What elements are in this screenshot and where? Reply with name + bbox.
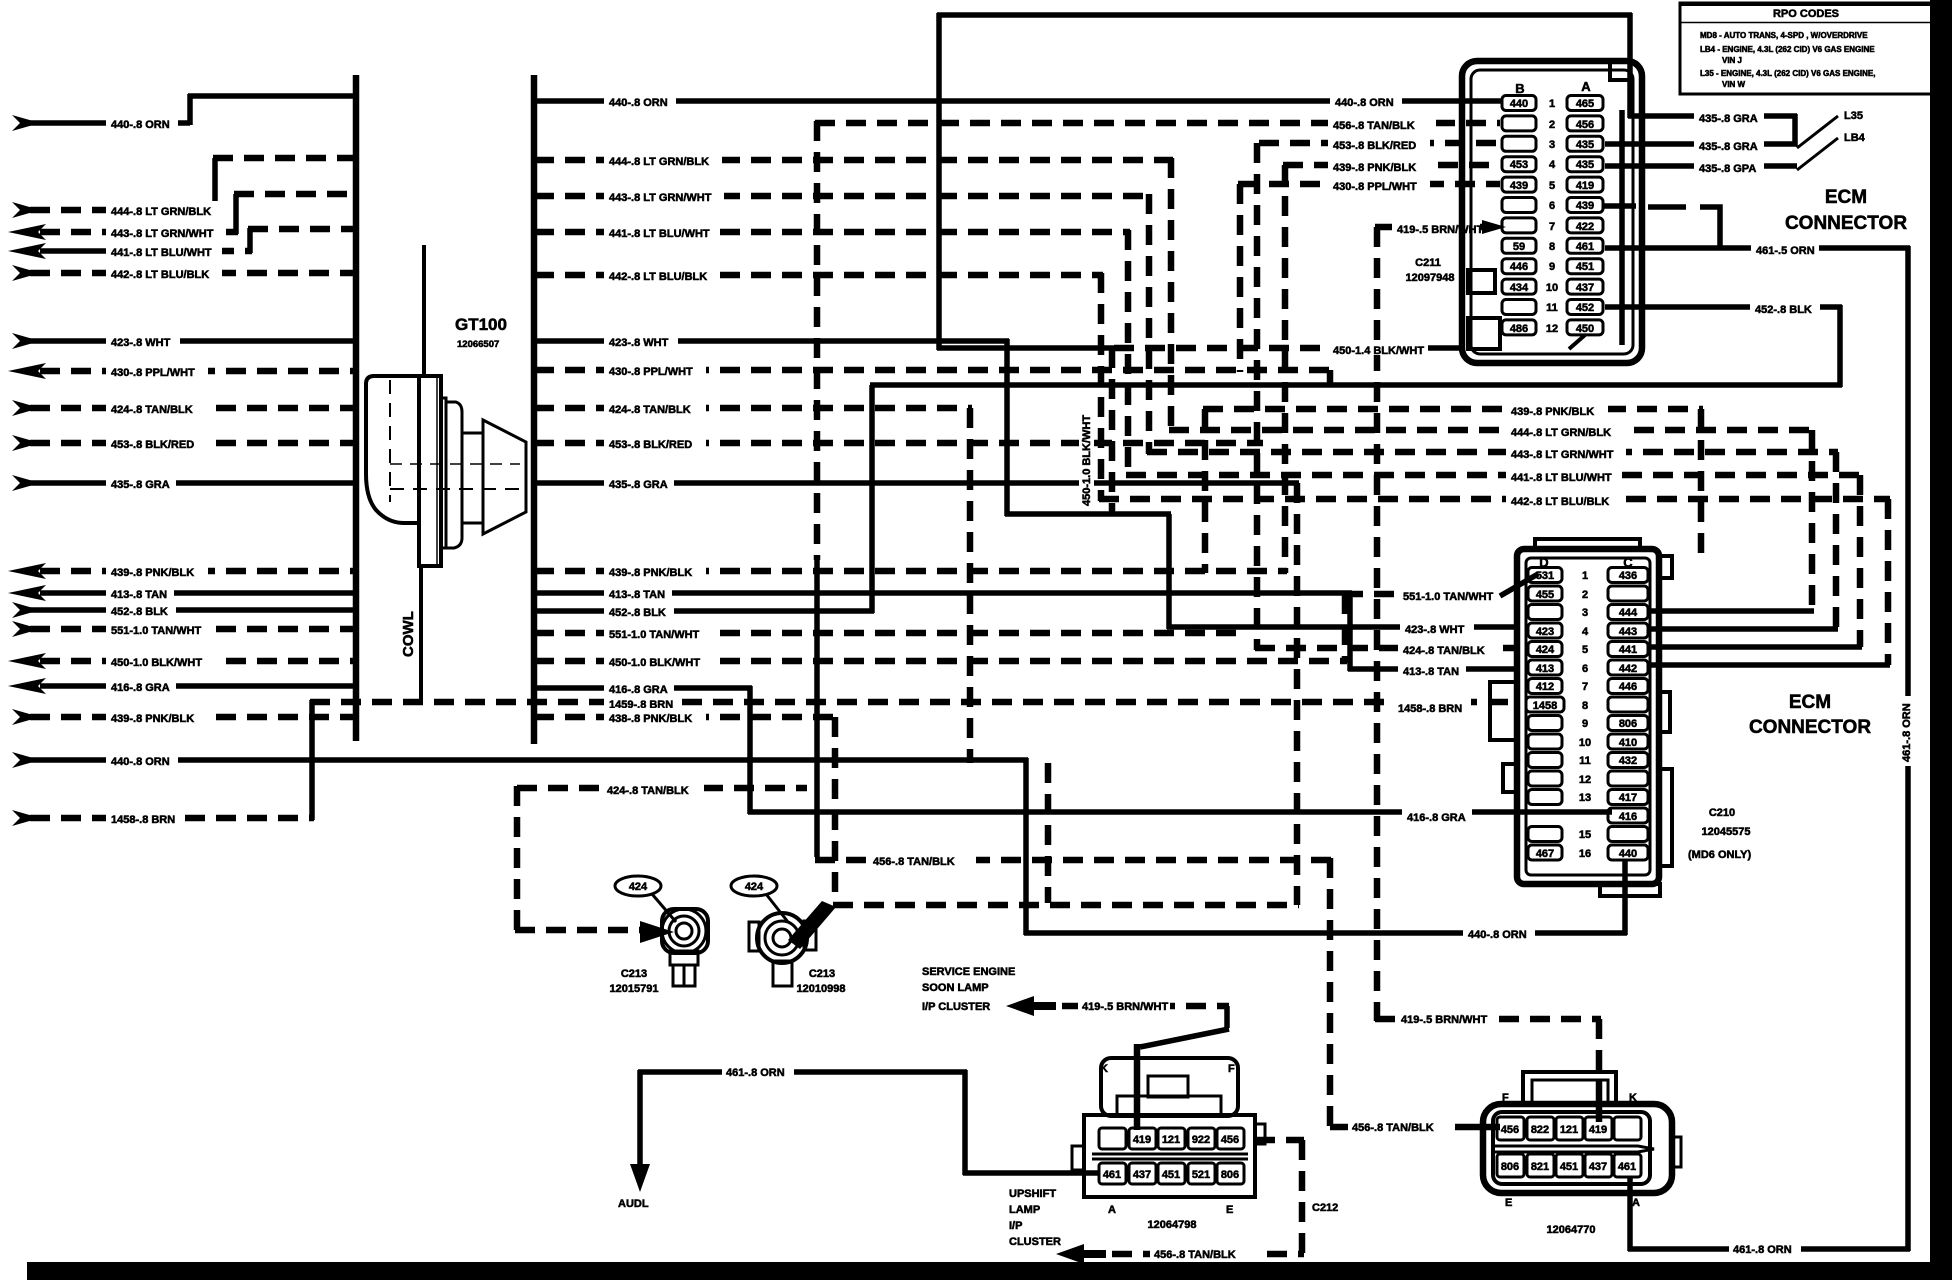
svg-text:437: 437: [1589, 1161, 1607, 1173]
svg-text:1: 1: [1582, 570, 1588, 582]
svg-text:424: 424: [629, 881, 648, 893]
C211 A6 stub and elbow: [1603, 203, 1636, 209]
wire 435-.8 GPA stub row 3: [1605, 158, 1797, 175]
svg-text:9: 9: [1549, 261, 1555, 273]
svg-text:435: 435: [1576, 159, 1594, 171]
wire 450-1.0 BLK/WHT left: [8, 652, 356, 669]
svg-text:436: 436: [1619, 570, 1637, 582]
svg-text:424-.8 TAN/BLK: 424-.8 TAN/BLK: [111, 404, 193, 416]
svg-text:E: E: [1226, 1204, 1233, 1216]
connector GT100 grommet body: [366, 376, 526, 566]
svg-text:440: 440: [1619, 848, 1637, 860]
svg-text:VIN W: VIN W: [1722, 80, 1746, 89]
svg-text:10: 10: [1546, 282, 1558, 294]
UPSHIFT LAMP text: [1009, 1188, 1061, 1248]
svg-text:461-.8 ORN: 461-.8 ORN: [726, 1067, 785, 1079]
svg-text:439: 439: [1510, 180, 1528, 192]
wire 413-.8 TAN left: [8, 584, 356, 601]
svg-text:416: 416: [1619, 811, 1637, 823]
wire 453-.8 BLK/RED right of cowl: [534, 434, 1263, 451]
svg-text:RPO CODES: RPO CODES: [1773, 8, 1839, 20]
wire 435-.8 GRA stub row 1: [1628, 13, 1797, 125]
svg-text:A: A: [1632, 1197, 1640, 1209]
wire 450 top loop vertical: [936, 13, 942, 350]
svg-text:456-.8 TAN/BLK: 456-.8 TAN/BLK: [1352, 1122, 1434, 1134]
svg-text:CONNECTOR: CONNECTOR: [1749, 717, 1871, 738]
wire 456-.8 TAN/BLK to upshift lamp: [1112, 1246, 1304, 1261]
svg-text:12064770: 12064770: [1547, 1224, 1596, 1236]
connector GT100 stem upper: [422, 245, 426, 378]
svg-text:439-.8 PNK/BLK: 439-.8 PNK/BLK: [609, 567, 692, 579]
svg-text:12045575: 12045575: [1702, 826, 1751, 838]
wire 430-.8 PPL/WHT right of cowl: [534, 361, 1332, 387]
scan artifact right bar: [1930, 0, 1952, 1280]
svg-text:452: 452: [1576, 302, 1594, 314]
svg-text:L35: L35: [1844, 110, 1863, 122]
svg-text:1458-.8 BRN: 1458-.8 BRN: [1398, 703, 1462, 715]
wire 450-1.0 BLK/WHT right of cowl: [534, 652, 1347, 669]
svg-text:C211: C211: [1415, 257, 1441, 269]
svg-text:419-.5 BRN/WHT: 419-.5 BRN/WHT: [1401, 1014, 1487, 1026]
splice tag 424 left: [615, 876, 676, 922]
svg-text:13: 13: [1579, 792, 1591, 804]
svg-text:456: 456: [1221, 1134, 1239, 1146]
svg-text:452-.8 BLK: 452-.8 BLK: [609, 607, 666, 619]
connector C211 outline: [1462, 61, 1642, 363]
svg-text:419: 419: [1133, 1134, 1151, 1146]
svg-text:6: 6: [1582, 663, 1588, 675]
svg-text:461-.5 ORN: 461-.5 ORN: [1756, 245, 1815, 257]
svg-text:461: 461: [1618, 1161, 1636, 1173]
wire 443-.8 LT GRN/WHT mid row to C210 C4: [1147, 444, 1838, 629]
scan artifact bottom bar: [27, 1262, 1952, 1280]
svg-text:456: 456: [1501, 1124, 1519, 1136]
svg-text:439-.8 PNK/BLK: 439-.8 PNK/BLK: [1511, 406, 1594, 418]
svg-text:434: 434: [1510, 282, 1529, 294]
svg-text:2: 2: [1582, 589, 1588, 601]
svg-text:450: 450: [1576, 323, 1594, 335]
svg-text:806: 806: [1619, 718, 1637, 730]
svg-text:456: 456: [1576, 119, 1594, 131]
svg-text:I/P CLUSTER: I/P CLUSTER: [922, 1001, 990, 1013]
svg-text:456-.8 TAN/BLK: 456-.8 TAN/BLK: [873, 856, 955, 868]
svg-text:450-1.0 BLK/WHT: 450-1.0 BLK/WHT: [1081, 415, 1093, 506]
svg-text:806: 806: [1221, 1169, 1239, 1181]
wire 439-.8 PNK/BLK lower left: [12, 708, 356, 725]
svg-text:465: 465: [1576, 98, 1594, 110]
svg-text:2: 2: [1549, 119, 1555, 131]
svg-text:551-1.0 TAN/WHT: 551-1.0 TAN/WHT: [1403, 591, 1494, 603]
svg-text:CONNECTOR: CONNECTOR: [1785, 213, 1907, 234]
svg-text:16: 16: [1579, 848, 1591, 860]
sensor C213 12015791: [610, 909, 708, 995]
svg-text:456-.8 TAN/BLK: 456-.8 TAN/BLK: [1154, 1249, 1236, 1261]
cowl left bulkhead line: [353, 75, 360, 741]
wire 435-.8 GRA left: [12, 474, 356, 491]
svg-text:423-.8 WHT: 423-.8 WHT: [609, 337, 669, 349]
connector 12064770: [1483, 1072, 1681, 1236]
wire 441-.8 LT BLU/WHT right of cowl: [534, 223, 1130, 240]
svg-text:GT100: GT100: [455, 315, 507, 334]
svg-text:F: F: [1228, 1063, 1235, 1075]
wire 441-.8 LT BLU/WHT left: [8, 228, 356, 259]
wire 430-.8 PPL/WHT left: [8, 362, 356, 379]
C211 inner right bus: [1619, 110, 1625, 345]
svg-text:439-.8 PNK/BLK: 439-.8 PNK/BLK: [111, 713, 194, 725]
svg-text:11: 11: [1579, 755, 1591, 767]
svg-text:422: 422: [1576, 221, 1594, 233]
svg-text:456-.8 TAN/BLK: 456-.8 TAN/BLK: [1333, 120, 1415, 132]
wire 444-.8 LT GRN/BLK mid row to C210 C3: [1169, 422, 1814, 611]
wire 444 drop mid: [1168, 158, 1175, 432]
wire 450-1.4 BLK/WHT into C211: [937, 340, 1462, 357]
wire top horizontal run: [937, 12, 1632, 18]
svg-text:521: 521: [1192, 1169, 1210, 1181]
svg-text:461: 461: [1576, 241, 1594, 253]
svg-text:442-.8 LT BLU/BLK: 442-.8 LT BLU/BLK: [609, 271, 707, 283]
connector C210 outline: [1490, 539, 1672, 896]
svg-text:424-.8 TAN/BLK: 424-.8 TAN/BLK: [607, 785, 689, 797]
svg-text:419: 419: [1576, 180, 1594, 192]
wire 435-.8 GRA right of cowl: [534, 474, 1299, 491]
svg-text:413-.8 TAN: 413-.8 TAN: [111, 589, 167, 601]
arrow to upshift lamp: [1056, 1244, 1106, 1264]
svg-text:MD8 - AUTO TRANS, 4-SPD , W/OV: MD8 - AUTO TRANS, 4-SPD , W/OVERDRIVE: [1700, 31, 1868, 40]
wire 443 drop mid: [1146, 194, 1153, 454]
SERVICE ENGINE SOON LAMP text: [922, 966, 1015, 1013]
svg-text:442: 442: [1619, 663, 1637, 675]
svg-text:L35 - ENGINE, 4.3L (262 CID) V: L35 - ENGINE, 4.3L (262 CID) V6 GAS ENGI…: [1700, 69, 1875, 78]
wire 456-.8 TAN/BLK into 12064770: [1330, 1119, 1500, 1134]
svg-text:410: 410: [1619, 737, 1637, 749]
wire 452-.8 BLK left: [12, 601, 356, 618]
svg-text:453: 453: [1510, 159, 1528, 171]
svg-text:439: 439: [1576, 200, 1594, 212]
connector C210 pin rows: [1526, 568, 1648, 861]
svg-text:440-.8 ORN: 440-.8 ORN: [1468, 929, 1527, 941]
wire 419-.5 BRN/WHT to C212 right half: [1375, 1011, 1601, 1122]
wire 442 drop mid: [1098, 273, 1105, 501]
svg-text:461-.8 ORN: 461-.8 ORN: [1733, 1244, 1792, 1256]
svg-text:LB4 - ENGINE, 4.3L (262 CID) V: LB4 - ENGINE, 4.3L (262 CID) V6 GAS ENGI…: [1700, 45, 1875, 54]
svg-text:LAMP: LAMP: [1009, 1204, 1040, 1216]
wire 416-.8 GRA right of cowl: [534, 679, 1612, 824]
svg-text:486: 486: [1510, 323, 1528, 335]
wire 456-.8 TAN/BLK vertical drop: [815, 121, 1332, 1129]
svg-text:430-.8 PPL/WHT: 430-.8 PPL/WHT: [1333, 181, 1417, 193]
sensor C213 12010998: [749, 913, 845, 995]
svg-text:SOON LAMP: SOON LAMP: [922, 982, 989, 994]
svg-text:C213: C213: [809, 968, 835, 980]
svg-text:551-1.0 TAN/WHT: 551-1.0 TAN/WHT: [111, 625, 202, 637]
svg-text:430-.8 PPL/WHT: 430-.8 PPL/WHT: [111, 367, 195, 379]
wire 413-.8 TAN right of cowl: [534, 584, 1352, 601]
wire 551-1.0 TAN/WHT into C210 D1: [1343, 574, 1538, 663]
svg-text:435-.8 GPA: 435-.8 GPA: [1699, 163, 1756, 175]
svg-text:453-.8 BLK/RED: 453-.8 BLK/RED: [111, 439, 194, 451]
svg-text:412: 412: [1536, 681, 1554, 693]
wire stub from right sensor to 438 run: [788, 901, 836, 949]
L35 callout: [1797, 110, 1863, 148]
svg-text:443-.8 LT GRN/WHT: 443-.8 LT GRN/WHT: [609, 192, 712, 204]
connector 12064798: [1072, 1058, 1265, 1231]
svg-text:437: 437: [1133, 1169, 1151, 1181]
svg-text:822: 822: [1531, 1124, 1549, 1136]
svg-text:441: 441: [1619, 644, 1637, 656]
svg-text:441-.8 LT BLU/WHT: 441-.8 LT BLU/WHT: [1511, 472, 1612, 484]
connector GT100 stem lower: [419, 564, 423, 702]
wire 423-.8 WHT route to C210: [1005, 339, 1517, 636]
svg-text:15: 15: [1579, 829, 1591, 841]
svg-text:446: 446: [1510, 261, 1528, 273]
svg-text:4: 4: [1582, 626, 1589, 638]
wire 424-.8 TAN/BLK sensor run: [515, 408, 970, 943]
svg-text:440-.8 ORN: 440-.8 ORN: [111, 119, 170, 131]
svg-text:3: 3: [1549, 139, 1555, 151]
svg-text:430-.8 PPL/WHT: 430-.8 PPL/WHT: [609, 366, 693, 378]
svg-text:10: 10: [1579, 737, 1591, 749]
wire 461-.8 ORN from 12064770 pin A: [1628, 1176, 1910, 1256]
svg-text:440: 440: [1510, 98, 1528, 110]
svg-text:8: 8: [1549, 241, 1555, 253]
wire 461 from C211 A8 to right edge: [1605, 240, 1913, 1251]
svg-text:806: 806: [1501, 1161, 1519, 1173]
wire 438-.8 PNK/BLK right of cowl: [534, 708, 1299, 905]
svg-text:443: 443: [1619, 626, 1637, 638]
svg-text:1: 1: [1549, 98, 1555, 110]
svg-text:6: 6: [1549, 200, 1555, 212]
cowl right bulkhead line: [531, 75, 538, 744]
svg-text:451: 451: [1560, 1161, 1578, 1173]
svg-text:SERVICE ENGINE: SERVICE ENGINE: [922, 966, 1015, 978]
wire 439-.8 PNK/BLK right of cowl: [534, 562, 1287, 579]
svg-text:452-.8 BLK: 452-.8 BLK: [1755, 304, 1812, 316]
wire 413-.8 TAN into C210 D6: [1348, 591, 1517, 678]
svg-text:443-.8 LT GRN/WHT: 443-.8 LT GRN/WHT: [1511, 449, 1614, 461]
svg-text:LB4: LB4: [1844, 132, 1866, 144]
wire 423-.8 WHT left: [12, 332, 356, 349]
svg-text:AUDL: AUDL: [618, 1198, 649, 1210]
svg-text:437: 437: [1576, 282, 1594, 294]
svg-text:7: 7: [1549, 221, 1555, 233]
svg-text:435-.8 GRA: 435-.8 GRA: [1699, 113, 1758, 125]
wire 452-.8 BLK right of cowl: [534, 602, 874, 619]
svg-text:C212: C212: [1312, 1202, 1338, 1214]
svg-text:5: 5: [1582, 644, 1588, 656]
wire 416-.8 GRA left: [8, 677, 356, 694]
svg-text:444-.8 LT GRN/BLK: 444-.8 LT GRN/BLK: [111, 206, 211, 218]
svg-text:A: A: [1108, 1204, 1116, 1216]
svg-text:439-.8 PNK/BLK: 439-.8 PNK/BLK: [111, 567, 194, 579]
wire 450-1.0 BLK/WHT vertical with rotated label: [1079, 348, 1112, 514]
svg-text:440-.8 ORN: 440-.8 ORN: [111, 756, 170, 768]
wire 435 vertical stub mid: [1294, 483, 1301, 905]
svg-text:423-.8 WHT: 423-.8 WHT: [1405, 624, 1465, 636]
svg-text:440-.8 ORN: 440-.8 ORN: [1335, 97, 1394, 109]
svg-text:432: 432: [1619, 755, 1637, 767]
svg-text:COWL: COWL: [400, 611, 417, 657]
svg-text:435-.8 GRA: 435-.8 GRA: [609, 479, 668, 491]
svg-text:450-1.0 BLK/WHT: 450-1.0 BLK/WHT: [111, 657, 202, 669]
svg-text:419: 419: [1589, 1124, 1607, 1136]
RPO CODES legend box: [1680, 3, 1933, 94]
wire 443-.8 LT GRN/WHT right of cowl: [534, 187, 1151, 204]
wire 456-.8 TAN/BLK from pin 456 down: [1255, 1140, 1304, 1256]
svg-text:3: 3: [1582, 607, 1588, 619]
wire 435-.8 GRA stub row 2: [1605, 114, 1797, 153]
svg-text:A: A: [1581, 79, 1591, 94]
wire 440-.8 ORN right of cowl: [534, 92, 1502, 109]
svg-text:ECM: ECM: [1825, 187, 1867, 208]
wire 452-.8 BLK route to C211 A11: [870, 299, 1842, 613]
wire 453-.8 BLK/RED left: [12, 434, 356, 451]
wire 424-.8 TAN/BLK right of cowl: [534, 399, 972, 416]
wire 439-.8 PNK/BLK mid row: [1203, 401, 1703, 573]
wire 440-.8 ORN left: [12, 94, 356, 131]
svg-text:12010998: 12010998: [797, 983, 846, 995]
svg-text:453-.8 BLK/RED: 453-.8 BLK/RED: [1333, 140, 1416, 152]
wire 453-.8 BLK/RED into C211: [1257, 135, 1500, 650]
wire 439-.8 PNK/BLK into C211: [1283, 157, 1500, 573]
svg-text:11: 11: [1546, 302, 1558, 314]
splice tag 424 right: [731, 876, 788, 922]
svg-text:531: 531: [1536, 570, 1554, 582]
svg-text:435: 435: [1576, 139, 1594, 151]
arrow to service engine lamp: [1006, 996, 1056, 1016]
svg-text:452-.8 BLK: 452-.8 BLK: [111, 606, 168, 618]
svg-text:B: B: [1515, 81, 1524, 96]
wire 424-.8 TAN/BLK left: [12, 399, 356, 416]
svg-text:441-.8 LT BLU/WHT: 441-.8 LT BLU/WHT: [609, 228, 710, 240]
svg-text:417: 417: [1619, 792, 1637, 804]
svg-text:439-.8 PNK/BLK: 439-.8 PNK/BLK: [1333, 162, 1416, 174]
wire 1459-.8 BRN through cowl: [310, 694, 1517, 715]
wire 442-.8 LT BLU/BLK right of cowl: [534, 266, 1103, 283]
svg-text:12066507: 12066507: [457, 339, 499, 350]
svg-text:E: E: [1505, 1197, 1512, 1209]
wire 551-1.0 TAN/WHT left: [12, 620, 356, 637]
svg-text:K: K: [1629, 1092, 1637, 1104]
svg-text:424-.8 TAN/BLK: 424-.8 TAN/BLK: [609, 404, 691, 416]
svg-text:461: 461: [1103, 1169, 1121, 1181]
svg-text:442-.8 LT BLU/BLK: 442-.8 LT BLU/BLK: [1511, 496, 1609, 508]
svg-text:461-.8 ORN: 461-.8 ORN: [1901, 703, 1913, 762]
svg-text:424-.8 TAN/BLK: 424-.8 TAN/BLK: [1403, 645, 1485, 657]
wire 443-.8 LT GRN/WHT left: [8, 194, 356, 240]
wire 442-.8 LT BLU/BLK left: [12, 264, 356, 281]
svg-text:441-.8 LT BLU/WHT: 441-.8 LT BLU/WHT: [111, 247, 212, 259]
connector C211 pin rows: [1502, 96, 1603, 350]
svg-text:I/P: I/P: [1009, 1220, 1022, 1232]
svg-text:121: 121: [1162, 1134, 1180, 1146]
svg-text:455: 455: [1536, 589, 1554, 601]
svg-text:8: 8: [1582, 700, 1588, 712]
svg-text:922: 922: [1192, 1134, 1210, 1146]
svg-text:424: 424: [1536, 644, 1555, 656]
svg-text:467: 467: [1536, 848, 1554, 860]
svg-text:C210: C210: [1709, 807, 1735, 819]
svg-text:451: 451: [1576, 261, 1594, 273]
svg-text:59: 59: [1513, 241, 1525, 253]
wire 423-.8 WHT right of cowl: [534, 332, 1009, 349]
svg-text:416-.8 GRA: 416-.8 GRA: [1407, 812, 1466, 824]
svg-text:12: 12: [1579, 774, 1591, 786]
svg-text:438-.8 PNK/BLK: 438-.8 PNK/BLK: [609, 713, 692, 725]
svg-text:12097948: 12097948: [1406, 272, 1455, 284]
svg-text:416-.8 GRA: 416-.8 GRA: [111, 682, 170, 694]
wire 424-.8 TAN/BLK into C210 D5: [1255, 640, 1517, 657]
wire 430-.8 PPL/WHT into C211: [1238, 176, 1500, 372]
svg-text:440-.8 ORN: 440-.8 ORN: [609, 97, 668, 109]
wire 441 drop mid: [1125, 230, 1132, 477]
svg-text:442-.8 LT BLU/BLK: 442-.8 LT BLU/BLK: [111, 269, 209, 281]
wire 440-.8 ORN long bottom run: [12, 751, 1627, 941]
wire 444-.8 LT GRN/BLK right of cowl: [534, 151, 1173, 168]
wire 551-1.0 TAN/WHT right of cowl: [534, 624, 1242, 641]
svg-text:444-.8 LT GRN/BLK: 444-.8 LT GRN/BLK: [609, 156, 709, 168]
svg-text:450-1.4 BLK/WHT: 450-1.4 BLK/WHT: [1333, 345, 1424, 357]
svg-text:(MD6 ONLY): (MD6 ONLY): [1688, 849, 1751, 861]
svg-text:7: 7: [1582, 681, 1588, 693]
LB4 callout: [1797, 132, 1866, 170]
svg-text:121: 121: [1560, 1124, 1578, 1136]
svg-text:444-.8 LT GRN/BLK: 444-.8 LT GRN/BLK: [1511, 427, 1611, 439]
svg-text:443-.8 LT GRN/WHT: 443-.8 LT GRN/WHT: [111, 228, 214, 240]
svg-text:UPSHIFT: UPSHIFT: [1009, 1188, 1056, 1200]
svg-text:CLUSTER: CLUSTER: [1009, 1236, 1061, 1248]
svg-text:K: K: [1100, 1063, 1108, 1075]
svg-text:423: 423: [1536, 626, 1554, 638]
svg-text:5: 5: [1549, 180, 1555, 192]
svg-text:444: 444: [1619, 607, 1638, 619]
wire 419-.5 BRN/WHT from C211 B7: [1375, 219, 1506, 1021]
svg-text:4: 4: [1549, 159, 1556, 171]
wire 456-.8 TAN/BLK into C211: [815, 115, 1500, 132]
svg-text:423-.8 WHT: 423-.8 WHT: [111, 337, 171, 349]
svg-text:12: 12: [1546, 323, 1558, 335]
svg-text:1458: 1458: [1533, 700, 1557, 712]
svg-text:419-.5 BRN/WHT: 419-.5 BRN/WHT: [1082, 1001, 1168, 1013]
svg-text:12064798: 12064798: [1148, 1219, 1197, 1231]
svg-text:413-.8 TAN: 413-.8 TAN: [609, 589, 665, 601]
svg-text:450-1.0 BLK/WHT: 450-1.0 BLK/WHT: [609, 657, 700, 669]
wire 419-.5 BRN/WHT to service lamp: [1062, 998, 1229, 1130]
svg-text:9: 9: [1582, 718, 1588, 730]
svg-text:435-.8 GRA: 435-.8 GRA: [111, 479, 170, 491]
wire 441-.8 LT BLU/WHT mid row to C210 C5: [1126, 467, 1862, 647]
wire 461-.8 ORN to AUDL: [618, 1064, 1099, 1210]
svg-text:1458-.8 BRN: 1458-.8 BRN: [111, 814, 175, 826]
wire 442-.8 LT BLU/BLK mid row to C210 C6: [1099, 491, 1890, 665]
svg-text:413-.8 TAN: 413-.8 TAN: [1403, 666, 1459, 678]
svg-text:446: 446: [1619, 681, 1637, 693]
svg-text:12015791: 12015791: [610, 983, 659, 995]
wire 444-.8 LT GRN/BLK left: [12, 158, 356, 218]
svg-text:VIN J: VIN J: [1722, 56, 1742, 65]
wire stub vertical mid: [1045, 763, 1052, 903]
wire 1458-.8 BRN left: [12, 700, 314, 826]
svg-text:821: 821: [1531, 1161, 1549, 1173]
svg-text:C213: C213: [621, 968, 647, 980]
wire 439-.8 PNK/BLK left: [8, 562, 356, 579]
svg-text:F: F: [1502, 1092, 1509, 1104]
svg-text:413: 413: [1536, 663, 1554, 675]
svg-text:ECM: ECM: [1789, 692, 1831, 713]
svg-text:551-1.0 TAN/WHT: 551-1.0 TAN/WHT: [609, 629, 700, 641]
svg-text:453-.8 BLK/RED: 453-.8 BLK/RED: [609, 439, 692, 451]
svg-text:451: 451: [1162, 1169, 1180, 1181]
svg-text:435-.8 GRA: 435-.8 GRA: [1699, 141, 1758, 153]
